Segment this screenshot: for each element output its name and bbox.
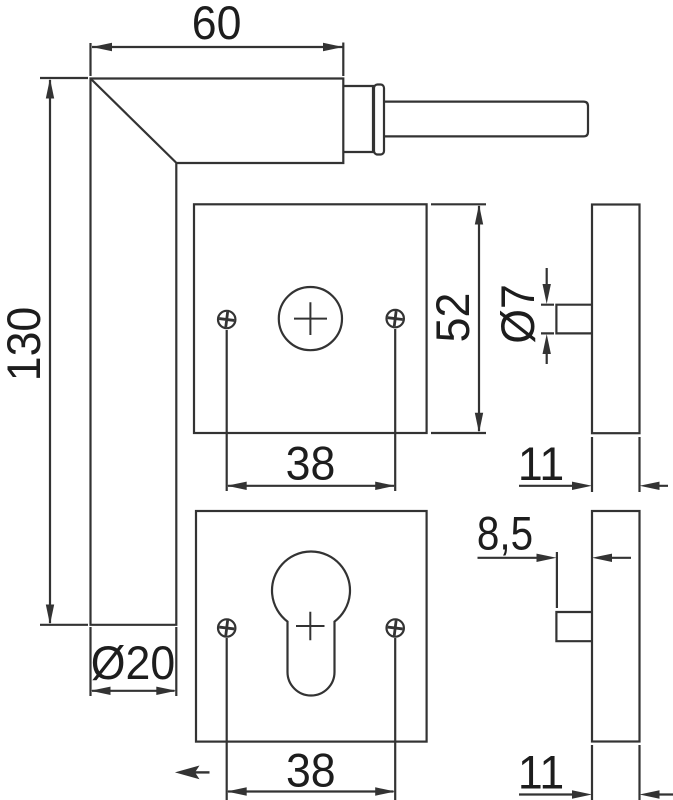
lower plate left screw xyxy=(218,619,235,636)
dim 130 extension lines xyxy=(40,78,88,625)
handing arrow tail xyxy=(194,771,210,773)
upper rose side view xyxy=(592,205,640,434)
arrowhead dim130 top xyxy=(46,79,54,99)
upper plate handle hole circle xyxy=(279,287,342,350)
dim O20 line xyxy=(92,690,175,692)
arrowhead dim52 top xyxy=(475,205,483,225)
arrowhead dim38 upper left xyxy=(227,482,247,490)
spindle collar xyxy=(374,85,384,155)
dim 11 lower extension lines xyxy=(592,745,640,800)
dim 38 lower extension lines xyxy=(227,638,396,800)
handing arrow xyxy=(175,766,200,780)
svg-text:11: 11 xyxy=(518,438,564,490)
dim 8,5 line xyxy=(478,557,632,559)
arrowhead dimO7 bottom xyxy=(543,334,551,354)
spindle shaft xyxy=(384,102,589,137)
dim O7 arrow lines xyxy=(546,268,548,364)
arrowhead dim38 lower left xyxy=(227,787,247,795)
svg-text:130: 130 xyxy=(0,307,50,381)
upper plate left screw xyxy=(218,311,235,328)
svg-text:Ø7: Ø7 xyxy=(492,284,544,344)
dim 11 lower line xyxy=(519,793,673,795)
upper square rose plate xyxy=(194,204,427,433)
dim 60 extension lines xyxy=(91,43,344,77)
dim O20 extension lines xyxy=(91,627,177,696)
handle neck xyxy=(343,86,373,152)
svg-text:8,5: 8,5 xyxy=(477,508,533,561)
arrowhead dim11 lower right xyxy=(640,790,660,798)
dim 52 extension lines xyxy=(431,204,486,433)
dim 38 lower line xyxy=(228,790,394,792)
arrowhead dim11 lower left xyxy=(572,790,592,798)
svg-text:38: 38 xyxy=(286,437,336,489)
upper plate right screw xyxy=(387,310,404,327)
dim 38 upper line xyxy=(228,485,394,487)
arrowhead dim52 bottom xyxy=(475,413,483,433)
arrowhead dimO20 right xyxy=(156,687,176,695)
dim 52 line xyxy=(478,206,480,431)
arrowhead dim8,5 right xyxy=(592,554,612,562)
arrowhead dim60 right xyxy=(323,43,343,51)
svg-text:52: 52 xyxy=(427,293,479,343)
arrowhead dim130 bottom xyxy=(46,605,54,625)
arrowhead dimO7 top xyxy=(543,284,551,304)
dim 60 line xyxy=(92,46,343,48)
dim 38 upper extension lines xyxy=(227,329,396,491)
dim 130 line xyxy=(49,80,51,623)
arrowhead dim38 upper right xyxy=(375,482,395,490)
arrowhead dim11 upper right xyxy=(640,482,660,490)
dim 8,5 extension line xyxy=(556,552,558,608)
lower spindle stub xyxy=(556,612,592,641)
arrowhead dim8,5 left xyxy=(537,554,557,562)
euro cylinder keyhole xyxy=(272,551,350,695)
lower square rose plate xyxy=(196,511,427,742)
upper plate center cross xyxy=(294,302,327,335)
arrowhead dim60 left xyxy=(92,43,112,51)
arrowhead dimO20 left xyxy=(91,687,111,695)
dim O7 extension ticks xyxy=(541,305,554,334)
arrowhead dim38 lower right xyxy=(375,787,395,795)
lever miter diagonal xyxy=(91,79,176,163)
lower plate right screw xyxy=(387,619,404,636)
lever handle outline xyxy=(91,79,344,625)
lower rose side view xyxy=(592,511,640,742)
svg-text:60: 60 xyxy=(192,0,242,49)
svg-text:Ø20: Ø20 xyxy=(91,637,175,689)
svg-text:11: 11 xyxy=(518,746,564,798)
dim 11 upper line xyxy=(519,485,668,487)
dim 11 upper extension lines xyxy=(592,437,640,492)
upper spindle stub xyxy=(556,305,592,334)
lower plate center cross xyxy=(296,612,325,641)
arrowhead dim11 upper left xyxy=(572,482,592,490)
svg-text:38: 38 xyxy=(286,744,336,796)
